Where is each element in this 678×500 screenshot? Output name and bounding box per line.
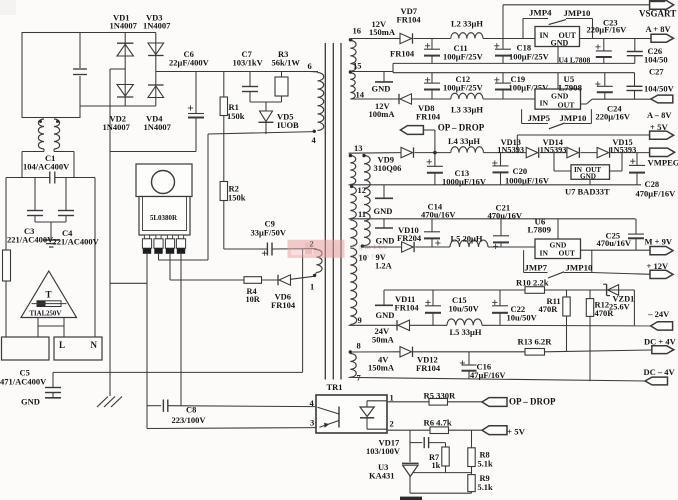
svg-text:R13 6.2R: R13 6.2R bbox=[518, 336, 553, 346]
svg-text:DC – 4V: DC – 4V bbox=[644, 367, 676, 377]
svg-text:1N5393: 1N5393 bbox=[497, 146, 524, 155]
svg-text:TR1: TR1 bbox=[327, 382, 343, 392]
svg-text:L2 33μH: L2 33μH bbox=[451, 18, 483, 28]
svg-text:L: L bbox=[59, 340, 65, 350]
svg-text:GND: GND bbox=[551, 38, 569, 47]
svg-text:150k: 150k bbox=[228, 193, 246, 203]
svg-text:104/50: 104/50 bbox=[644, 55, 668, 65]
svg-text:12: 12 bbox=[358, 185, 367, 195]
svg-text:FR204: FR204 bbox=[397, 233, 422, 243]
svg-text:100mA: 100mA bbox=[369, 109, 396, 119]
svg-text:13: 13 bbox=[354, 143, 363, 153]
svg-text:M + 9V: M + 9V bbox=[645, 237, 673, 247]
svg-text:470μF/16V: 470μF/16V bbox=[636, 188, 677, 198]
svg-text:GND: GND bbox=[374, 206, 393, 216]
svg-text:GND: GND bbox=[580, 172, 596, 180]
svg-text:R9: R9 bbox=[480, 474, 490, 483]
svg-text:470u/16V: 470u/16V bbox=[421, 210, 456, 220]
svg-text:TIAL250V: TIAL250V bbox=[30, 310, 62, 317]
svg-text:221/AC400V: 221/AC400V bbox=[7, 234, 54, 244]
svg-text:56k/1W: 56k/1W bbox=[272, 58, 301, 68]
svg-text:470R: 470R bbox=[539, 304, 559, 314]
svg-text:6: 6 bbox=[308, 61, 312, 71]
svg-text:– 24V: – 24V bbox=[647, 309, 670, 319]
svg-text:9: 9 bbox=[358, 315, 362, 325]
svg-text:+ 12V: + 12V bbox=[647, 261, 669, 271]
svg-text:R10 2.2k: R10 2.2k bbox=[516, 278, 549, 288]
svg-text:A – 8V: A – 8V bbox=[647, 110, 672, 120]
svg-text:L5 33μH: L5 33μH bbox=[450, 327, 482, 337]
svg-text:150mA: 150mA bbox=[369, 27, 396, 37]
svg-text:R5 330R: R5 330R bbox=[424, 390, 457, 400]
svg-text:5L0380R: 5L0380R bbox=[150, 214, 178, 222]
svg-text:11: 11 bbox=[358, 209, 366, 219]
svg-text:KA431: KA431 bbox=[369, 470, 395, 480]
svg-text:471/AC400V: 471/AC400V bbox=[0, 377, 47, 387]
svg-text:JMP4: JMP4 bbox=[529, 7, 552, 17]
svg-text:103/100V: 103/100V bbox=[366, 446, 401, 456]
svg-text:FR104: FR104 bbox=[416, 363, 441, 373]
svg-text:FR104: FR104 bbox=[397, 15, 422, 25]
svg-text:IN: IN bbox=[540, 31, 549, 40]
svg-text:1000μF/16V: 1000μF/16V bbox=[505, 176, 550, 186]
svg-text:1N5393: 1N5393 bbox=[610, 146, 637, 155]
svg-text:1N4007: 1N4007 bbox=[110, 21, 138, 31]
svg-text:150k: 150k bbox=[227, 111, 245, 121]
svg-text:JMP10: JMP10 bbox=[560, 113, 587, 123]
svg-text:104/AC400V: 104/AC400V bbox=[23, 162, 70, 172]
svg-text:R8: R8 bbox=[480, 451, 490, 460]
svg-text:5.1k: 5.1k bbox=[478, 459, 493, 468]
svg-text:1N4007: 1N4007 bbox=[103, 122, 131, 132]
svg-text:FR104: FR104 bbox=[416, 112, 441, 122]
svg-text:50mA: 50mA bbox=[372, 334, 395, 344]
svg-text:FR104: FR104 bbox=[395, 302, 420, 312]
svg-text:104/50V: 104/50V bbox=[644, 84, 675, 94]
svg-text:8: 8 bbox=[357, 340, 361, 350]
svg-text:OUT: OUT bbox=[558, 101, 576, 110]
svg-text:OP – DROP: OP – DROP bbox=[509, 397, 556, 407]
svg-text:33μF/50V: 33μF/50V bbox=[251, 228, 287, 238]
svg-text:U7 BAD33T: U7 BAD33T bbox=[565, 187, 610, 197]
svg-text:JMP10: JMP10 bbox=[566, 262, 593, 272]
svg-text:1.2A: 1.2A bbox=[375, 261, 393, 271]
svg-text:14: 14 bbox=[356, 90, 365, 100]
svg-text:100μF/25V: 100μF/25V bbox=[443, 51, 484, 61]
svg-text:GND: GND bbox=[551, 92, 569, 101]
svg-text:FR104: FR104 bbox=[390, 48, 415, 58]
svg-text:470R: 470R bbox=[595, 308, 615, 318]
svg-text:10R: 10R bbox=[246, 295, 261, 304]
svg-text:221/AC400V: 221/AC400V bbox=[53, 236, 100, 246]
svg-text:GND: GND bbox=[21, 397, 40, 407]
svg-text:10: 10 bbox=[359, 252, 368, 262]
svg-text:310Q06: 310Q06 bbox=[374, 163, 402, 173]
svg-text:150mA: 150mA bbox=[368, 363, 395, 373]
svg-text:1N5393: 1N5393 bbox=[540, 146, 567, 155]
svg-text:L4 33μH: L4 33μH bbox=[448, 136, 480, 146]
svg-text:JMP7: JMP7 bbox=[525, 262, 548, 272]
svg-text:GND: GND bbox=[376, 235, 395, 245]
svg-text:L7908: L7908 bbox=[559, 83, 583, 93]
svg-text:JMP10: JMP10 bbox=[564, 8, 591, 18]
svg-text:C27: C27 bbox=[649, 66, 664, 76]
svg-text:10u/50V: 10u/50V bbox=[507, 312, 538, 322]
svg-text:N: N bbox=[91, 340, 98, 350]
svg-text:R6 4.7k: R6 4.7k bbox=[424, 417, 452, 427]
svg-text:VSGART: VSGART bbox=[639, 9, 676, 19]
svg-text:OUT: OUT bbox=[559, 249, 575, 258]
svg-text:OP – DROP: OP – DROP bbox=[438, 122, 485, 132]
svg-text:1N4007: 1N4007 bbox=[144, 122, 172, 132]
svg-text:470u/16V: 470u/16V bbox=[597, 238, 632, 248]
svg-text:1k: 1k bbox=[432, 461, 441, 470]
svg-text:GND: GND bbox=[372, 84, 391, 94]
svg-text:10u/50V: 10u/50V bbox=[449, 303, 480, 313]
svg-text:GND: GND bbox=[376, 310, 395, 320]
svg-text:15: 15 bbox=[353, 60, 362, 70]
svg-text:100μF/25V: 100μF/25V bbox=[443, 82, 484, 92]
svg-text:5.1k: 5.1k bbox=[478, 483, 493, 492]
svg-text:+ 5V: + 5V bbox=[507, 427, 526, 437]
svg-text:16: 16 bbox=[353, 26, 362, 36]
svg-text:100μF/25V: 100μF/25V bbox=[509, 51, 550, 61]
svg-text:IN: IN bbox=[540, 99, 549, 108]
svg-text:IUOB: IUOB bbox=[277, 120, 299, 130]
svg-text:103/1kV: 103/1kV bbox=[233, 58, 264, 68]
svg-text:FR104: FR104 bbox=[271, 300, 296, 310]
svg-text:220μ/16V: 220μ/16V bbox=[596, 111, 631, 121]
svg-text:220μF/16V: 220μF/16V bbox=[587, 25, 628, 35]
svg-text:+ 5V: + 5V bbox=[650, 122, 669, 132]
svg-text:L5 20μH: L5 20μH bbox=[451, 234, 483, 244]
svg-text:C8: C8 bbox=[186, 405, 196, 415]
svg-text:1: 1 bbox=[390, 393, 394, 403]
svg-text:L7809: L7809 bbox=[528, 224, 552, 234]
svg-text:22μF/400V: 22μF/400V bbox=[169, 58, 210, 68]
svg-text:L3 33μH: L3 33μH bbox=[451, 104, 483, 114]
svg-text:A + 8V: A + 8V bbox=[646, 24, 672, 34]
svg-text:C20: C20 bbox=[513, 166, 528, 176]
svg-text:IN: IN bbox=[540, 249, 549, 258]
svg-text:T: T bbox=[46, 290, 52, 300]
svg-text:DC + 4V: DC + 4V bbox=[644, 336, 677, 346]
svg-text:2: 2 bbox=[390, 419, 394, 429]
svg-text:C28: C28 bbox=[645, 179, 660, 189]
svg-text:1: 1 bbox=[310, 282, 314, 292]
svg-text:VMPEG: VMPEG bbox=[648, 158, 678, 168]
svg-text:1N4007: 1N4007 bbox=[143, 21, 171, 31]
svg-text:470u/16V: 470u/16V bbox=[488, 210, 523, 220]
svg-text:JMP5: JMP5 bbox=[528, 113, 551, 123]
svg-text:3: 3 bbox=[310, 418, 314, 428]
svg-text:223/100V: 223/100V bbox=[172, 415, 207, 425]
